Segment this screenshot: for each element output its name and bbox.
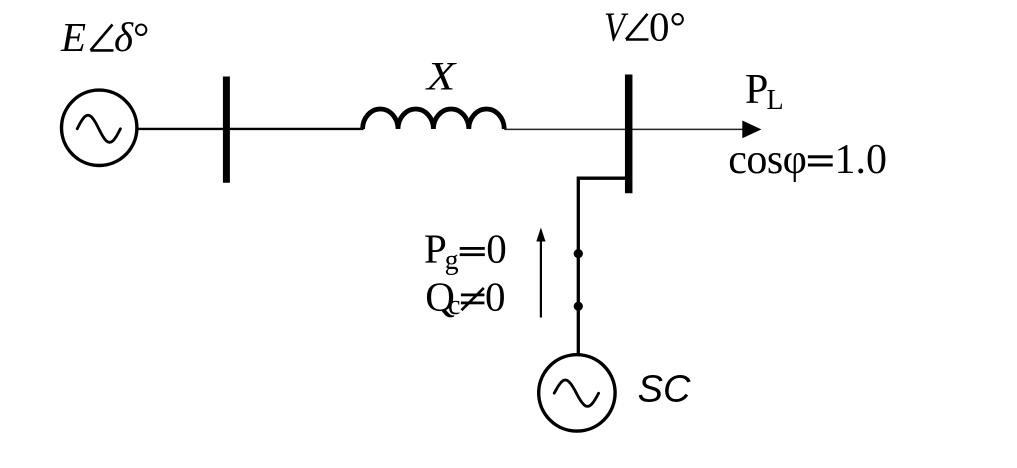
svg-text:P: P — [745, 67, 768, 113]
synchronous condenser SC circle — [539, 355, 615, 431]
svg-text:0: 0 — [486, 225, 507, 271]
svg-text:V: V — [604, 3, 628, 49]
label E angle delta deg — [60, 14, 149, 60]
label Pg=0 — [424, 225, 507, 275]
sine wave inside source E — [77, 115, 120, 142]
load arrowhead P_L — [742, 121, 761, 139]
svg-text:L: L — [767, 85, 784, 116]
svg-text:P: P — [424, 225, 447, 271]
label V angle 0 deg — [604, 3, 686, 49]
label P L — [745, 67, 784, 116]
thin wire from inductor through bus 2 to load arrow — [504, 128, 743, 130]
svg-text:SC: SC — [638, 368, 691, 410]
svg-text:0: 0 — [485, 273, 506, 319]
svg-text:c: c — [448, 290, 460, 321]
up arrow (reactive power flow) — [540, 240, 542, 318]
label cos phi = 1.0 — [728, 137, 887, 183]
junction dot upper — [574, 249, 583, 258]
jog wire from bus 2 down-left to SC branch — [578, 178, 627, 355]
label Qc!=0 — [425, 273, 505, 321]
inductor X (4 arcs) — [363, 109, 505, 129]
svg-text:0°: 0° — [649, 3, 686, 49]
bus bar 1 — [223, 77, 230, 183]
svg-text:g: g — [445, 245, 459, 276]
svg-text:E: E — [60, 14, 86, 60]
generator source E circle — [61, 90, 136, 165]
svg-text:1.0: 1.0 — [835, 137, 888, 183]
svg-text:cosφ: cosφ — [728, 137, 806, 183]
svg-text:X: X — [424, 54, 457, 99]
svg-text:°: ° — [133, 14, 149, 60]
wire from source E to inductor — [137, 128, 364, 130]
bus bar 2 — [625, 75, 633, 194]
junction dot lower — [574, 302, 583, 311]
svg-text:δ: δ — [114, 14, 134, 60]
sine wave inside SC — [554, 380, 598, 406]
